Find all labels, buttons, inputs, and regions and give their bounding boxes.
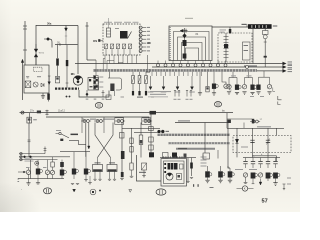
label bbox=[231, 75, 236, 76]
box drop bbox=[103, 117, 105, 133]
switch chain bbox=[225, 33, 227, 62]
connector dark bbox=[94, 76, 96, 79]
pin lead bbox=[142, 42, 146, 44]
pi group bbox=[263, 71, 265, 77]
relay hatch bbox=[93, 169, 102, 171]
component box bbox=[163, 153, 169, 159]
connector dark bbox=[94, 86, 96, 89]
wire bbox=[180, 61, 182, 64]
label marks bbox=[273, 25, 278, 26]
bus bbox=[122, 127, 160, 129]
fuse box bbox=[138, 76, 141, 84]
terminal tick bbox=[252, 183, 255, 185]
wire bbox=[127, 55, 129, 64]
label bbox=[25, 160, 34, 163]
harness band bbox=[157, 134, 230, 136]
node K bbox=[237, 188, 243, 190]
wire bbox=[30, 160, 32, 179]
wire bbox=[264, 39, 266, 67]
wire bbox=[140, 123, 142, 136]
ring terminal bbox=[194, 64, 197, 67]
wire bbox=[267, 158, 269, 162]
motor unit inner bbox=[164, 161, 185, 184]
pi group bbox=[248, 72, 250, 78]
component dark bbox=[121, 172, 124, 177]
switch contact bbox=[224, 54, 229, 56]
nested frame bbox=[178, 37, 206, 61]
label bbox=[99, 87, 103, 88]
switch contact bbox=[224, 42, 229, 44]
ground bbox=[84, 180, 88, 181]
fuse slash bbox=[132, 76, 135, 84]
lamp box bbox=[142, 163, 147, 170]
terminal tick bbox=[23, 49, 27, 51]
wire bbox=[275, 179, 277, 183]
label 44 bbox=[166, 131, 170, 132]
svg-text:K: K bbox=[244, 187, 246, 191]
connector diamond bbox=[183, 34, 187, 38]
connector bbox=[20, 152, 22, 154]
wire bbox=[44, 147, 46, 154]
harness band bbox=[176, 148, 215, 150]
wire bbox=[61, 160, 63, 162]
wire bbox=[29, 113, 31, 123]
bus C bbox=[257, 70, 283, 72]
relay J1 box bbox=[24, 65, 49, 93]
wire bbox=[117, 49, 119, 55]
fuse dark bbox=[47, 94, 50, 100]
contact S1 bbox=[104, 44, 107, 49]
ring terminal bbox=[224, 64, 227, 67]
svg-text:KS: KS bbox=[93, 39, 97, 43]
ground bbox=[250, 92, 254, 94]
motor frame bbox=[79, 90, 109, 97]
strip slit bbox=[250, 25, 253, 28]
module box bbox=[149, 145, 154, 150]
mark bbox=[121, 97, 125, 98]
junction dot bbox=[24, 156, 26, 158]
label row bbox=[114, 21, 122, 24]
label bbox=[247, 75, 252, 76]
label row bbox=[124, 21, 131, 24]
junction dot bbox=[30, 156, 32, 158]
wire bbox=[187, 61, 189, 64]
wire bbox=[227, 118, 252, 120]
terminal cross bbox=[102, 92, 105, 94]
inner mark bbox=[244, 45, 249, 46]
capacitor bbox=[258, 162, 262, 164]
switch contact bbox=[224, 39, 229, 41]
wire bbox=[115, 28, 119, 30]
component dark bbox=[190, 163, 193, 169]
label bbox=[99, 77, 103, 78]
wire bbox=[110, 157, 112, 164]
stub bbox=[18, 171, 26, 173]
node e bbox=[35, 161, 39, 165]
connector pair bbox=[81, 120, 83, 122]
ground bbox=[120, 179, 124, 180]
ground bbox=[89, 176, 91, 183]
strip slit bbox=[258, 25, 261, 28]
motor unit box bbox=[161, 159, 187, 187]
fuse slash bbox=[138, 76, 141, 84]
wire bbox=[136, 55, 138, 64]
wire bbox=[109, 55, 111, 64]
strip slit bbox=[261, 25, 264, 28]
switch lamp bbox=[251, 173, 256, 179]
motor dot bbox=[77, 81, 79, 83]
nested frame bbox=[174, 32, 210, 61]
wire bbox=[217, 150, 219, 159]
wire bbox=[165, 72, 167, 76]
label blob bbox=[37, 111, 41, 114]
wire bbox=[86, 90, 88, 97]
wire bbox=[174, 72, 176, 76]
label bbox=[185, 18, 193, 19]
fuse F1 bbox=[56, 58, 59, 65]
ground bbox=[198, 93, 202, 95]
contact slash bbox=[116, 44, 119, 49]
wire bbox=[160, 72, 162, 76]
wire bbox=[114, 91, 116, 96]
connector arrow bbox=[48, 76, 51, 82]
jog wire bbox=[222, 72, 226, 84]
bus main bbox=[20, 112, 234, 114]
fuse slash bbox=[145, 76, 148, 84]
terminal ticks bbox=[28, 140, 31, 142]
wire stub D+ bbox=[65, 26, 67, 32]
wire bbox=[108, 18, 110, 28]
svg-text:M1: M1 bbox=[71, 72, 75, 76]
diode D1 bbox=[41, 83, 44, 87]
mark bbox=[137, 97, 143, 98]
coil K1 bbox=[107, 28, 111, 37]
switch dark bbox=[84, 169, 88, 175]
wire bbox=[139, 84, 141, 92]
label bbox=[189, 92, 195, 93]
label marks bbox=[43, 167, 47, 168]
wire bbox=[187, 158, 189, 182]
connector dark bbox=[94, 81, 96, 84]
pin lead bbox=[142, 30, 146, 32]
connector dark bbox=[252, 119, 254, 124]
edge hatch bbox=[169, 27, 171, 60]
ground bbox=[37, 179, 39, 183]
label ra bbox=[144, 119, 148, 120]
connector bbox=[20, 156, 22, 158]
contact slash bbox=[122, 44, 125, 49]
switch lamp bbox=[266, 173, 271, 179]
wire bbox=[226, 113, 228, 129]
junction dot bbox=[47, 38, 50, 41]
terminal tick bbox=[23, 25, 27, 27]
capacitor bbox=[273, 162, 277, 164]
jog wire bbox=[103, 59, 105, 70]
nested frame bbox=[182, 43, 203, 61]
transistor bar bbox=[34, 83, 38, 87]
svg-text:57: 57 bbox=[262, 199, 268, 205]
svg-text:W K1: W K1 bbox=[39, 52, 45, 54]
wire bbox=[260, 158, 262, 162]
label bbox=[288, 65, 293, 66]
section 10 bbox=[156, 189, 166, 195]
label 30 bbox=[242, 24, 247, 25]
motor M2 bbox=[166, 173, 173, 180]
switch dark bbox=[72, 169, 76, 175]
contact slash bbox=[128, 44, 131, 49]
wire bbox=[276, 156, 278, 161]
jog wire bbox=[107, 61, 114, 70]
bus bbox=[18, 178, 64, 180]
bus A bbox=[75, 63, 283, 65]
wire bbox=[192, 72, 194, 76]
wire bbox=[175, 122, 228, 124]
section 11 bbox=[44, 188, 52, 194]
wire bbox=[97, 157, 99, 164]
wire bbox=[264, 29, 266, 31]
wire bbox=[47, 160, 49, 171]
connector block bbox=[94, 76, 99, 80]
terminal tick bbox=[59, 43, 61, 46]
diode box K unit bbox=[233, 136, 291, 153]
wire bbox=[245, 164, 247, 168]
relay coil bbox=[93, 165, 103, 172]
transistor Q1 bbox=[33, 82, 38, 87]
pin label bbox=[147, 39, 150, 40]
wire bbox=[213, 89, 215, 93]
label SAT bbox=[71, 134, 79, 136]
pin text col bbox=[201, 157, 207, 158]
wire bbox=[199, 72, 201, 93]
wire bbox=[252, 29, 254, 64]
svg-text:84: 84 bbox=[196, 33, 199, 36]
wire bbox=[131, 55, 133, 64]
unit pins bbox=[164, 163, 166, 165]
wire bbox=[145, 72, 147, 76]
ground pair bbox=[71, 183, 79, 184]
ring terminal bbox=[202, 64, 205, 67]
wire bbox=[122, 55, 124, 64]
bus bbox=[60, 151, 90, 153]
jog wire bbox=[118, 62, 123, 64]
section II bbox=[215, 102, 222, 107]
wire bbox=[191, 158, 193, 176]
label bbox=[148, 92, 154, 93]
strip slit bbox=[254, 25, 257, 28]
ground bbox=[273, 183, 277, 186]
sensor mark bbox=[206, 87, 208, 89]
module box bbox=[149, 137, 154, 142]
clock Z1 box bbox=[263, 31, 269, 35]
switch pivot bbox=[59, 132, 61, 134]
connector block bbox=[94, 86, 99, 90]
fuse box bbox=[145, 76, 148, 84]
connector housing bbox=[115, 118, 124, 125]
wire bbox=[105, 49, 107, 55]
X wire bbox=[98, 123, 114, 158]
switch S2 lever bbox=[56, 134, 70, 138]
label bbox=[175, 92, 181, 93]
ground bbox=[142, 176, 146, 177]
wire bbox=[57, 45, 59, 59]
clock Z1 face bbox=[263, 35, 267, 39]
strip slit bbox=[265, 25, 268, 28]
wire bbox=[24, 21, 26, 65]
wire bbox=[202, 61, 204, 64]
arrow down bbox=[88, 146, 90, 149]
svg-text:11a/12: 11a/12 bbox=[58, 110, 66, 112]
bus 30 bbox=[55, 44, 78, 46]
connector pair bbox=[115, 120, 117, 122]
section I bbox=[95, 103, 102, 109]
switch dark bbox=[60, 170, 64, 176]
connector bbox=[20, 158, 22, 160]
pin ticks bbox=[86, 99, 89, 100]
label beige bbox=[178, 120, 190, 121]
terminal tick bbox=[23, 28, 27, 30]
ground bbox=[212, 93, 216, 95]
wire bbox=[123, 49, 125, 55]
lamp dark bbox=[235, 85, 239, 90]
motor M1 bbox=[73, 76, 82, 85]
bracket bbox=[273, 88, 275, 92]
junction blob bbox=[146, 69, 150, 72]
pin circle bbox=[139, 26, 142, 29]
sensor blob bbox=[110, 84, 114, 92]
wire bbox=[113, 55, 115, 64]
module box bbox=[149, 127, 154, 131]
ring terminal bbox=[157, 64, 160, 67]
jog wire bbox=[147, 55, 149, 69]
wire bbox=[201, 72, 203, 76]
component mark bbox=[56, 77, 58, 79]
sensor box bbox=[206, 87, 209, 92]
wire bbox=[253, 155, 277, 157]
switch dark bbox=[224, 44, 228, 48]
wire bbox=[165, 61, 167, 64]
switch lamp bbox=[229, 168, 231, 171]
terminal pair bbox=[186, 91, 188, 97]
ground bbox=[186, 181, 189, 182]
label M1b bbox=[139, 172, 146, 173]
lamp E bbox=[267, 85, 271, 89]
wire bbox=[204, 123, 206, 154]
connector pair bbox=[142, 120, 144, 122]
wire bbox=[191, 76, 193, 87]
reg mark bbox=[96, 85, 98, 87]
wire bbox=[183, 72, 185, 76]
contact S2 bbox=[110, 44, 113, 49]
switch contact bbox=[224, 51, 229, 53]
pin circle bbox=[139, 30, 142, 33]
cable band bbox=[55, 87, 79, 89]
wire bbox=[111, 49, 113, 55]
arrow right bbox=[283, 69, 287, 72]
wire bbox=[87, 59, 96, 61]
wire bbox=[275, 164, 277, 168]
label marks bbox=[33, 119, 37, 120]
wire bbox=[150, 113, 152, 158]
svg-text:r: r bbox=[21, 188, 22, 191]
unit dark block bbox=[168, 163, 178, 170]
pin label bbox=[147, 31, 150, 32]
loop wire bbox=[108, 72, 122, 90]
contact S3 bbox=[116, 44, 119, 49]
wire bbox=[22, 62, 24, 100]
wire bbox=[66, 45, 68, 60]
fuse F2 bbox=[66, 60, 69, 66]
lamp slash bbox=[142, 163, 147, 170]
relay top mark bbox=[109, 162, 115, 163]
wire bbox=[245, 158, 247, 162]
junction block bbox=[150, 111, 157, 115]
connector pair bbox=[250, 121, 252, 123]
contact dark bbox=[60, 162, 64, 167]
relay K2 blob bbox=[120, 31, 128, 39]
pin circle bbox=[139, 38, 142, 41]
junction dot bbox=[86, 93, 88, 95]
dark mark bbox=[145, 91, 147, 95]
ground bbox=[93, 179, 96, 180]
terminal bar bbox=[264, 56, 267, 58]
relay top mark bbox=[95, 162, 101, 163]
wire bbox=[267, 164, 269, 168]
ground bbox=[108, 179, 111, 180]
dark mark bbox=[132, 91, 134, 95]
pin circle bbox=[139, 34, 142, 37]
label rows bbox=[220, 29, 227, 32]
wire bbox=[151, 72, 153, 76]
label bbox=[288, 61, 293, 62]
pin lead bbox=[142, 34, 146, 36]
ring terminal bbox=[187, 64, 190, 67]
connector arrow head bbox=[48, 82, 51, 85]
bracket bbox=[230, 85, 232, 91]
component dark bbox=[121, 151, 125, 159]
bus segment dark bbox=[244, 65, 257, 67]
svg-text:30a: 30a bbox=[47, 22, 52, 26]
svg-text:17: 17 bbox=[260, 119, 263, 121]
connector arrow bbox=[176, 87, 179, 90]
wire bbox=[252, 164, 254, 168]
wire bbox=[48, 100, 50, 102]
junction dots bbox=[66, 96, 68, 98]
wire bbox=[137, 155, 162, 181]
ground bbox=[256, 92, 260, 94]
contact slash bbox=[104, 44, 107, 49]
jog wire bbox=[228, 166, 230, 168]
component mark bbox=[140, 140, 142, 144]
mark bbox=[56, 130, 61, 131]
wire bbox=[156, 72, 158, 76]
wire bbox=[61, 167, 63, 170]
pin circle bbox=[139, 46, 142, 49]
box top edge bbox=[46, 117, 149, 123]
wire bbox=[178, 72, 180, 76]
label marks bbox=[26, 167, 30, 168]
connector blob bbox=[183, 40, 187, 46]
component mark bbox=[28, 118, 31, 120]
lamp E bbox=[227, 85, 231, 89]
terminal tick bbox=[202, 155, 204, 159]
connector plug bbox=[65, 28, 68, 31]
dark mark bbox=[184, 154, 187, 158]
connector arrow bbox=[162, 87, 165, 90]
terminal tick bbox=[85, 25, 88, 27]
label CAV bbox=[249, 169, 257, 170]
wire bbox=[44, 38, 47, 40]
junction dot bbox=[99, 190, 101, 192]
